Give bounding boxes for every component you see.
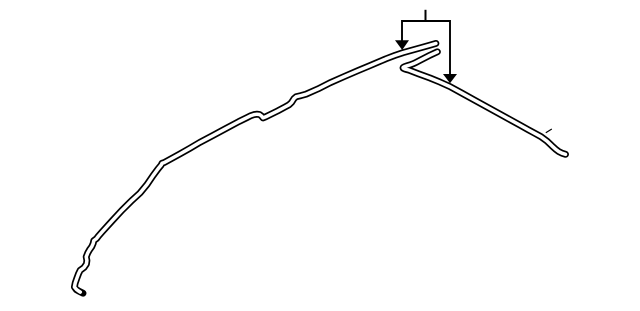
clip tick mark on right tail	[546, 129, 552, 133]
hose upper run (white core)	[74, 43, 436, 292]
arrowhead left	[395, 40, 409, 50]
callout stub (leader tick above bracket)	[425, 10, 427, 21]
arrowhead right	[443, 74, 457, 83]
callout bracket	[402, 21, 450, 74]
hose lower run (second hose with hairpin fold, outline)	[403, 52, 565, 155]
hose upper run (main washer hose, outline)	[74, 43, 436, 293]
hose lower run (white core)	[403, 52, 565, 155]
